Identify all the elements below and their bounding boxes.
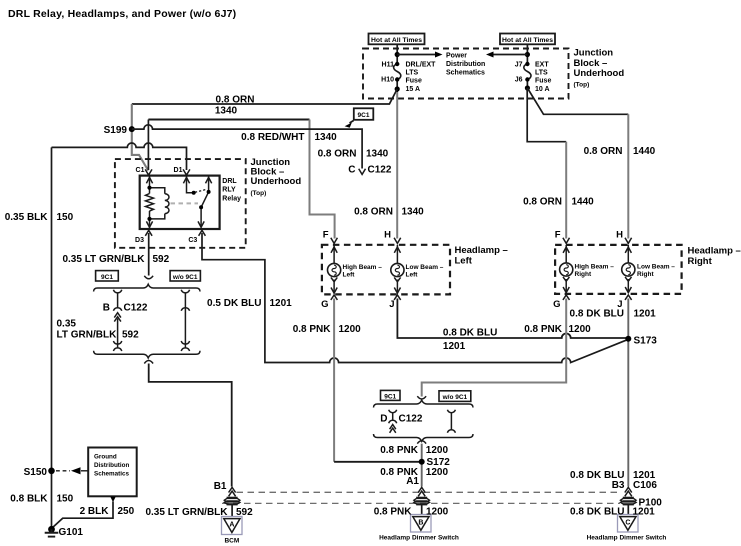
svg-text:0.8 PNK: 0.8 PNK: [293, 324, 332, 335]
svg-text:250: 250: [118, 506, 135, 517]
svg-text:G: G: [321, 299, 328, 310]
svg-text:Headlamp –: Headlamp –: [455, 245, 508, 256]
svg-text:C106: C106: [633, 480, 657, 491]
fuse F1 element: [394, 64, 401, 80]
pass-through boundary dashed line 2: [222, 502, 620, 504]
svg-text:LTS: LTS: [406, 70, 419, 77]
svg-text:10 A: 10 A: [535, 86, 550, 93]
svg-text:1201: 1201: [634, 308, 657, 319]
D-structure top brace: [374, 400, 474, 407]
hot at all times box 1: [369, 34, 425, 45]
resistor zigzag: [146, 194, 154, 212]
svg-text:J6: J6: [515, 77, 523, 84]
grommet at A1: [414, 498, 430, 505]
svg-text:1201: 1201: [633, 506, 656, 517]
wire fuse2 straight down then right: [527, 88, 566, 142]
headlamp dimmer switch B box: [411, 515, 432, 533]
svg-text:Fuse: Fuse: [535, 78, 551, 85]
svg-text:0.8 PNK: 0.8 PNK: [374, 506, 413, 517]
svg-text:Right: Right: [688, 256, 713, 267]
B-structure bottom brace: [94, 351, 200, 358]
svg-text:1340: 1340: [366, 148, 389, 159]
svg-text:1440: 1440: [572, 196, 595, 207]
connector 9C1 box (D-structure): [381, 390, 401, 400]
connector 9C1 box (B-structure): [96, 271, 119, 281]
svg-text:Hot at All Times: Hot at All Times: [502, 37, 553, 44]
svg-text:9C1: 9C1: [384, 393, 396, 400]
svg-text:Headlamp –: Headlamp –: [688, 246, 741, 257]
terminal H right: [625, 238, 632, 244]
svg-text:Distribution: Distribution: [94, 462, 129, 469]
node fuse2 top (arrow to Power Distribution): [525, 52, 530, 57]
wire 2 BLK 250: [52, 502, 114, 529]
wire 0.8 ORN 1440 right (H-right feed): [627, 114, 629, 238]
terminal C of C122: [359, 169, 366, 175]
svg-text:1340: 1340: [215, 106, 238, 117]
wire D-structure to S172 and A1: [421, 444, 423, 487]
svg-text:2 BLK: 2 BLK: [80, 506, 110, 517]
svg-text:0.8 ORN: 0.8 ORN: [523, 196, 562, 207]
svg-text:High Beam –: High Beam –: [343, 264, 383, 271]
svg-text:D: D: [380, 414, 387, 425]
fuse EXT LTS 10A vertical wire: [526, 44, 528, 88]
node S173: [625, 336, 631, 342]
terminal C1: [145, 169, 152, 175]
BCM triangle A: [224, 519, 240, 533]
svg-text:C122: C122: [399, 414, 423, 425]
svg-text:1200: 1200: [339, 324, 362, 335]
fuse DRL/EXT LTS 15A vertical wire: [396, 44, 398, 92]
svg-text:150: 150: [57, 494, 74, 505]
svg-text:RLY: RLY: [222, 186, 236, 193]
svg-text:w/o 9C1: w/o 9C1: [172, 274, 198, 281]
lamp high beam left: [328, 245, 341, 294]
fuse F2 element: [524, 64, 531, 80]
terminal F right: [563, 238, 570, 244]
svg-text:S150: S150: [24, 467, 48, 478]
svg-text:9C1: 9C1: [101, 274, 113, 281]
svg-text:Left: Left: [406, 271, 419, 278]
pass-through boundary dashed line 1: [237, 491, 622, 493]
svg-text:Underhood: Underhood: [251, 176, 302, 187]
node fuse2 bottom split: [525, 85, 530, 90]
arrow from 9C1 to wire C: [350, 121, 354, 124]
svg-text:F: F: [555, 229, 561, 240]
wire B-structure to B1/BCM: [149, 364, 232, 487]
junction block underhood (top) dashed box: [363, 49, 569, 99]
svg-text:15 A: 15 A: [406, 86, 421, 93]
svg-text:H11: H11: [382, 62, 395, 69]
svg-text:C: C: [625, 519, 630, 526]
node fuse1 bottom split: [395, 86, 400, 91]
svg-text:Hot at All Times: Hot at All Times: [371, 37, 422, 44]
svg-text:1200: 1200: [426, 467, 449, 478]
svg-text:H: H: [616, 229, 623, 240]
terminal G right: [563, 295, 570, 300]
svg-text:Schematics: Schematics: [446, 70, 485, 77]
terminal F left: [331, 238, 338, 244]
wire C: S199 to C122 pin C: [132, 125, 362, 169]
svg-text:G101: G101: [59, 527, 84, 538]
terminal C3: [199, 230, 206, 236]
split chevron top of D-structure: [417, 396, 426, 399]
svg-text:0.35: 0.35: [57, 319, 77, 330]
node fuse1 top (arrow to Power Distribution): [395, 52, 400, 57]
svg-text:Headlamp Dimmer Switch: Headlamp Dimmer Switch: [587, 535, 667, 542]
headlamp left dashed box: [322, 245, 450, 295]
node S199: [129, 126, 135, 132]
headlamp right dashed box: [555, 245, 682, 294]
svg-text:Left: Left: [455, 256, 473, 267]
svg-text:H: H: [384, 229, 391, 240]
wire B: RED/WHT to F-left: [148, 119, 309, 121]
terminal D1: [183, 169, 190, 175]
svg-text:Ground: Ground: [94, 453, 117, 460]
relay arrows on coil line: [146, 177, 152, 183]
svg-text:592: 592: [122, 329, 139, 340]
wire C3 to 0.5 DK BLU 1201: [202, 233, 628, 363]
hot at all times box 2: [500, 34, 555, 45]
connector w/o 9C1 box (D-structure): [439, 391, 471, 402]
node S150: [48, 468, 55, 475]
switch blade: [201, 192, 209, 227]
svg-text:S199: S199: [104, 125, 128, 136]
terminal H left: [394, 238, 401, 244]
svg-text:0.35 BLK: 0.35 BLK: [5, 212, 49, 223]
connector 9C1 box (top): [354, 108, 374, 120]
wire 0.35 BLK 150 left vertical: [51, 147, 53, 529]
wire G right 0.8 PNK 1200 down then left to D-structure: [422, 299, 567, 397]
split chevron bottom of B-structure: [144, 361, 153, 364]
svg-text:Fuse: Fuse: [406, 78, 422, 85]
split chevron top of B-structure: [144, 276, 153, 279]
svg-text:Underhood: Underhood: [574, 68, 625, 79]
svg-text:C: C: [348, 165, 355, 176]
wire A: 0.8 ORN 1340 top horizontal: [132, 89, 397, 104]
svg-text:1340: 1340: [402, 206, 425, 217]
headlamp dimmer switch C box: [618, 515, 639, 533]
svg-text:0.8 ORN: 0.8 ORN: [584, 146, 623, 157]
wire J right / S173 column down to B3: [627, 299, 629, 487]
svg-text:0.35 LT GRN/BLK: 0.35 LT GRN/BLK: [62, 254, 145, 265]
svg-text:0.8 DK BLU: 0.8 DK BLU: [570, 506, 624, 517]
switch throw dashed: [195, 189, 207, 192]
wire B vertical down to C1: [147, 120, 149, 171]
junction block underhood dashed box (relay): [115, 159, 246, 248]
svg-text:F: F: [323, 229, 329, 240]
svg-text:0.8 ORN: 0.8 ORN: [318, 148, 357, 159]
svg-text:J: J: [389, 299, 394, 310]
svg-text:0.8 DK BLU: 0.8 DK BLU: [570, 308, 624, 319]
svg-text:A1: A1: [406, 476, 419, 487]
svg-text:(Top): (Top): [251, 190, 267, 197]
terminal J right: [625, 295, 632, 300]
svg-text:LT GRN/BLK: LT GRN/BLK: [57, 329, 118, 340]
wire J left 0.8 DK BLU 1201 to S173: [397, 299, 628, 339]
wire H-left feed 0.8 ORN 1340: [396, 92, 398, 239]
grommet P100: [621, 498, 637, 505]
terminal A1 chevrons: [418, 487, 425, 496]
connector w/o 9C1 box (B-structure): [170, 271, 200, 281]
svg-text:Left: Left: [343, 271, 356, 278]
node S172: [419, 459, 425, 465]
svg-text:C3: C3: [188, 237, 197, 244]
terminal B1 chevrons: [229, 487, 236, 496]
svg-text:Power: Power: [446, 53, 467, 60]
svg-text:1340: 1340: [315, 132, 338, 143]
dashed arrow S150 to ground distribution box: [56, 470, 70, 472]
terminal G left: [331, 295, 338, 300]
D-structure bottom brace: [374, 434, 474, 441]
svg-text:0.8 PNK: 0.8 PNK: [380, 445, 419, 456]
svg-text:1440: 1440: [633, 146, 656, 157]
terminal B3 chevrons: [625, 487, 632, 496]
svg-text:9C1: 9C1: [358, 112, 370, 119]
relay switch branch: [183, 176, 211, 228]
svg-text:Distribution: Distribution: [446, 61, 485, 68]
terminal J left: [394, 295, 401, 300]
svg-text:C1: C1: [136, 167, 145, 174]
svg-text:High Beam –: High Beam –: [575, 263, 615, 270]
svg-text:1201: 1201: [443, 341, 466, 352]
svg-text:(Top): (Top): [574, 81, 590, 88]
svg-text:0.8 ORN: 0.8 ORN: [216, 94, 255, 105]
terminal D3: [145, 230, 152, 236]
coil parallel inductor: [150, 188, 165, 219]
dimmer switch B triangle: [413, 517, 429, 531]
svg-text:B: B: [418, 519, 423, 526]
D-structure right branch (w/o 9C1): [447, 410, 455, 433]
relay mechanical link dashed gray: [171, 202, 199, 204]
svg-text:0.8 BLK: 0.8 BLK: [10, 494, 48, 505]
D-structure left branch (C122 pin D): [389, 410, 397, 433]
lamp high beam right: [560, 245, 573, 293]
svg-text:C122: C122: [368, 165, 392, 176]
svg-text:J7: J7: [515, 62, 523, 69]
svg-text:H10: H10: [381, 77, 394, 84]
ground G101: [48, 526, 55, 533]
svg-text:592: 592: [153, 254, 170, 265]
B-structure right branch (w/o 9C1): [181, 290, 189, 351]
svg-text:w/o 9C1: w/o 9C1: [442, 394, 468, 401]
BCM box: [222, 517, 243, 535]
svg-text:DRL/EXT: DRL/EXT: [406, 62, 437, 69]
svg-text:B: B: [103, 303, 110, 314]
svg-text:LTS: LTS: [535, 70, 548, 77]
B-structure left branch (9C1, C122 pin B): [113, 290, 121, 351]
relay coil branch (C1-D3): [146, 176, 170, 229]
svg-text:DRL: DRL: [222, 178, 237, 185]
wire D3 down to split: [148, 233, 150, 276]
svg-text:C122: C122: [124, 303, 148, 314]
wire B1 to BCM: [231, 505, 233, 518]
svg-text:S173: S173: [634, 335, 658, 346]
B-structure top brace: [94, 284, 200, 291]
svg-text:1201: 1201: [270, 298, 293, 309]
svg-text:B1: B1: [214, 481, 227, 492]
svg-text:Relay: Relay: [222, 195, 241, 202]
svg-text:0.8 ORN: 0.8 ORN: [354, 206, 393, 217]
split chevron bottom of D-structure: [417, 441, 426, 444]
wire fuse2 to right feed (diagonal + horizontal): [527, 88, 628, 114]
svg-text:Headlamp Dimmer Switch: Headlamp Dimmer Switch: [379, 535, 459, 542]
svg-text:A: A: [229, 521, 234, 528]
node fuse1 terminals: [395, 62, 399, 66]
wire B3 to dimmer switch C: [627, 505, 629, 516]
wire 0.8 ORN 1440 left (F-right feed): [565, 142, 567, 239]
wire S172 left arm: [334, 461, 422, 463]
svg-text:D1: D1: [174, 167, 183, 174]
svg-text:0.8 PNK: 0.8 PNK: [524, 324, 563, 335]
svg-text:B3: B3: [612, 480, 625, 491]
svg-text:Right: Right: [575, 271, 592, 278]
arrow under ground distribution box: [110, 497, 116, 503]
svg-text:1200: 1200: [426, 506, 449, 517]
svg-text:0.8 DK BLU: 0.8 DK BLU: [443, 327, 497, 338]
svg-text:Low Beam –: Low Beam –: [406, 264, 444, 271]
svg-text:0.5 DK BLU: 0.5 DK BLU: [207, 298, 261, 309]
wire ground horizontal to D1: [52, 143, 187, 170]
relay DRL RLY box: [140, 176, 220, 229]
svg-text:150: 150: [57, 212, 74, 223]
lamp low beam right: [622, 245, 635, 293]
dimmer switch C triangle: [620, 517, 636, 531]
svg-text:D3: D3: [135, 237, 144, 244]
svg-text:DRL Relay, Headlamps, and Powe: DRL Relay, Headlamps, and Power (w/o 6J7…: [8, 8, 236, 20]
svg-text:592: 592: [236, 507, 253, 518]
grommet at B1: [224, 498, 240, 505]
svg-text:BCM: BCM: [224, 537, 239, 544]
svg-text:G: G: [553, 299, 560, 310]
svg-text:Right: Right: [637, 271, 654, 278]
wire S199 vertical (gray): [132, 104, 148, 171]
lamp low beam left: [391, 245, 404, 294]
wire G left 0.8 PNK 1200 down to S172 arm: [333, 299, 335, 462]
wire A1 to dimmer switch B: [421, 505, 423, 516]
svg-text:0.8 RED/WHT: 0.8 RED/WHT: [241, 132, 304, 143]
svg-text:Schematics: Schematics: [94, 470, 129, 477]
svg-text:1200: 1200: [569, 324, 592, 335]
svg-text:Low Beam –: Low Beam –: [637, 263, 675, 270]
svg-text:EXT: EXT: [535, 62, 549, 69]
svg-text:Block –: Block –: [574, 58, 608, 69]
svg-text:1200: 1200: [426, 445, 449, 456]
ground distribution schematics box: [88, 448, 137, 497]
svg-text:0.35 LT GRN/BLK: 0.35 LT GRN/BLK: [145, 507, 228, 518]
